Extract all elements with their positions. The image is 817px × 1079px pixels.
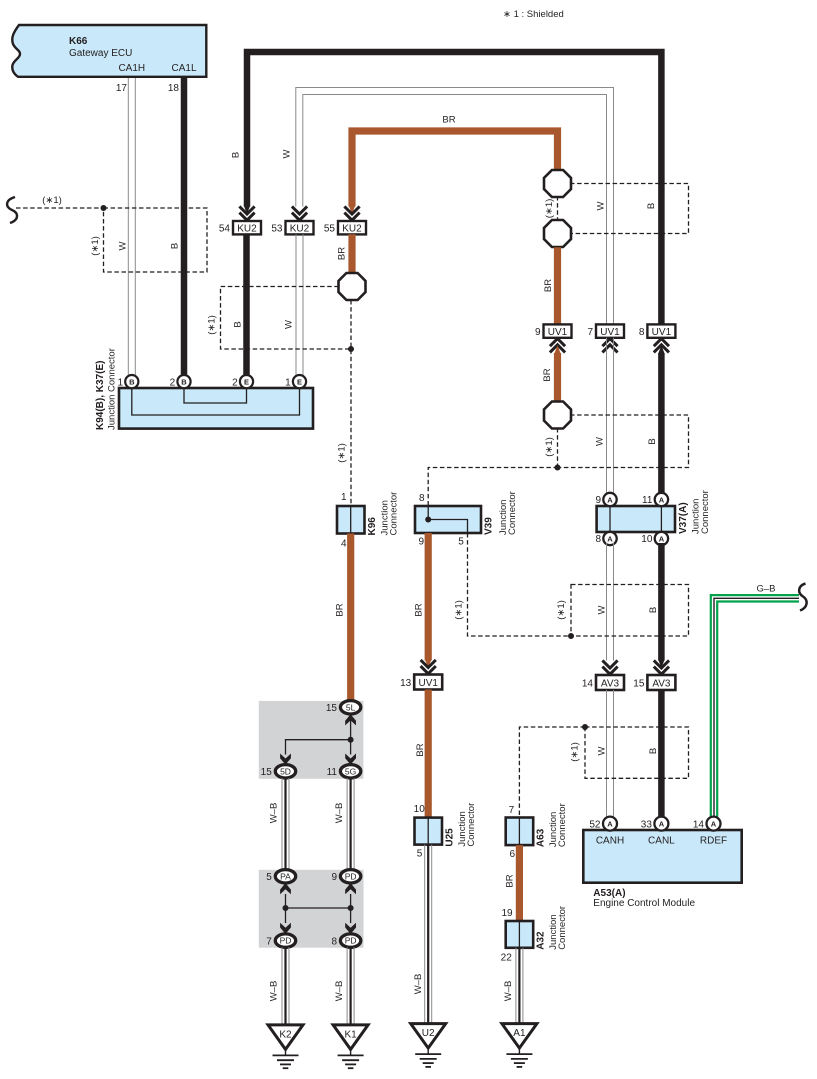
shield dashed box top right — [570, 184, 689, 234]
wire label W-B (U25-U2) — [413, 974, 424, 995]
svg-text:Gateway ECU: Gateway ECU — [69, 48, 132, 59]
wire brown K96 pin4 to 5L — [347, 534, 354, 703]
svg-text:(∗1): (∗1) — [337, 443, 348, 463]
svg-text:7: 7 — [509, 805, 515, 816]
svg-text:BR: BR — [505, 874, 516, 887]
svg-text:UV1: UV1 — [600, 327, 620, 338]
label B box4 — [648, 748, 659, 754]
wire white pair UV1 7 to V37 pin 9A — [607, 338, 614, 495]
shield dashed box mid right — [558, 415, 689, 468]
connector 53 KU2 — [271, 221, 313, 235]
svg-text:W: W — [118, 241, 129, 250]
wire label BR (top bus) — [442, 115, 455, 126]
svg-text:BR: BR — [442, 115, 455, 126]
svg-text:6: 6 — [509, 849, 515, 860]
svg-text:K1: K1 — [344, 1030, 357, 1041]
wire W-B PD8 to ground K1 — [347, 947, 354, 1025]
svg-text:(∗1): (∗1) — [544, 199, 555, 219]
arrow into AV3 15 — [654, 660, 669, 674]
shield octagon (left) — [339, 273, 366, 300]
shield drain dashed V39 pin5 down — [468, 533, 572, 636]
svg-text:9: 9 — [418, 537, 424, 548]
connector 14 AV3 — [582, 675, 624, 690]
svg-text:U2: U2 — [422, 1028, 435, 1039]
link line between dots — [286, 907, 351, 909]
svg-text:Connector: Connector — [557, 803, 568, 847]
svg-text:BR: BR — [415, 743, 426, 756]
arrow into AV3 14 — [602, 660, 617, 674]
connector 13 UV1 — [400, 675, 442, 690]
svg-text:W: W — [595, 437, 606, 446]
junction connector K96 — [337, 492, 365, 550]
pin 1(E) of K94 — [285, 375, 306, 388]
svg-text:15: 15 — [261, 767, 273, 778]
label (*1) shield box 1 — [90, 236, 101, 256]
wire black AV3 15 to ECM 33A — [658, 690, 665, 820]
svg-text:E: E — [297, 378, 302, 387]
svg-text:5G: 5G — [345, 766, 356, 776]
svg-text:A: A — [659, 535, 665, 544]
svg-text:A63: A63 — [536, 828, 547, 847]
svg-text:V37(A): V37(A) — [678, 502, 689, 534]
arrow into KU2 54 — [239, 206, 254, 220]
connector 15 AV3 — [633, 675, 675, 690]
shield junction dot — [101, 205, 107, 211]
svg-text:KU2: KU2 — [342, 224, 362, 235]
svg-text:BR: BR — [414, 603, 425, 616]
svg-text:8: 8 — [595, 534, 601, 545]
svg-text:W–B: W–B — [269, 803, 280, 824]
svg-text:V39: V39 — [484, 517, 495, 535]
svg-text:K66: K66 — [69, 36, 88, 47]
pin oval 5 PA — [266, 870, 295, 883]
wire label BR (K96-5L) — [335, 603, 346, 616]
svg-text:B: B — [181, 378, 187, 387]
svg-text:11: 11 — [327, 767, 338, 778]
solid arrow down into 5D — [280, 754, 291, 765]
svg-text:14: 14 — [582, 679, 594, 690]
svg-text:K2: K2 — [279, 1030, 292, 1041]
wire W-B 5D to PA — [282, 778, 289, 870]
link line PA to dot — [285, 894, 287, 923]
wire tip into KU2 54 — [244, 206, 251, 215]
label V39 — [484, 491, 519, 535]
wire W-B 5G to PD9 — [347, 778, 354, 870]
label (*1) box4 — [570, 742, 581, 762]
link line PD9 to dot — [350, 894, 352, 923]
break squiggle G-B — [799, 584, 807, 611]
svg-text:8: 8 — [639, 327, 645, 338]
label W shield box 2 — [284, 320, 295, 329]
junction dot on shield drain — [348, 346, 354, 352]
label (*1) at squiggle — [42, 195, 62, 206]
arrow into KU2 55 — [344, 206, 359, 220]
svg-text:W–B: W–B — [413, 974, 424, 995]
wire W-B A32 to ground A1 — [516, 948, 523, 1024]
svg-text:5: 5 — [266, 872, 272, 883]
shield dashed box V37-AV3 — [571, 585, 689, 637]
ground U2 — [411, 1024, 446, 1067]
shield drain dashed wire octagon to K96 — [350, 300, 352, 506]
wire label W-B (5D-PA) — [269, 803, 280, 824]
junction dot box4 — [582, 724, 588, 730]
wire label B (54 branch) — [231, 152, 242, 158]
svg-text:AV3: AV3 — [652, 679, 671, 690]
svg-text:PD: PD — [280, 936, 292, 946]
wire CAN-B main bus thick black — [247, 52, 661, 325]
wire label W-B (A32-A1) — [503, 981, 514, 1002]
svg-text:1: 1 — [117, 377, 123, 388]
label U25 — [445, 803, 478, 847]
shield dashed box 2 (B/W to junction) — [221, 287, 352, 350]
wire black KU2 54 to K94 pin 2E — [243, 234, 250, 378]
svg-text:54: 54 — [219, 224, 231, 235]
pin 17 label — [116, 83, 128, 94]
wire brown UV1 13 to U25 — [425, 690, 432, 818]
connector 8 UV1 — [639, 324, 676, 338]
svg-text:(∗1): (∗1) — [570, 742, 581, 762]
pin oval 15 5D — [261, 765, 296, 778]
svg-text:B: B — [129, 378, 135, 387]
solid arrow up into PA — [280, 883, 291, 894]
wire white pair KU2 53 to K94 pin 1E — [296, 234, 303, 378]
svg-text:(∗1): (∗1) — [544, 437, 555, 457]
svg-text:5L: 5L — [346, 702, 356, 712]
pin 14(A) of A53 — [693, 817, 721, 831]
connector 54 KU2 — [219, 221, 261, 235]
svg-text:B: B — [648, 607, 659, 613]
wire W-B PD7 to ground K2 — [282, 947, 289, 1025]
pin oval 7 PD — [266, 934, 295, 947]
svg-text:PD: PD — [345, 871, 357, 881]
ground A1 — [502, 1024, 537, 1067]
shield octagon 1 — [544, 170, 571, 197]
svg-text:(∗1): (∗1) — [207, 315, 218, 335]
link line dot to 5G — [350, 740, 352, 755]
junction connector A32 — [501, 908, 534, 963]
svg-text:A: A — [659, 496, 665, 505]
svg-text:14: 14 — [693, 819, 705, 830]
pin 11(A) of V37 — [642, 493, 668, 506]
svg-text:UV1: UV1 — [548, 327, 568, 338]
svg-text:9: 9 — [331, 872, 337, 883]
svg-text:BR: BR — [542, 368, 553, 381]
svg-text:18: 18 — [168, 83, 180, 94]
svg-text:AV3: AV3 — [601, 679, 620, 690]
wire brown A63 to A32 — [516, 845, 523, 921]
svg-text:UV1: UV1 — [418, 678, 438, 689]
ECU A53(A) Engine Control Module — [583, 830, 741, 909]
ground K2 — [268, 1025, 303, 1068]
pin 8(A) of V37 — [595, 532, 616, 545]
junction connector A63 — [506, 805, 534, 860]
svg-text:BR: BR — [543, 279, 554, 292]
junction dot gray box 1 — [348, 737, 354, 743]
svg-text:W–B: W–B — [334, 803, 345, 824]
svg-text:PD: PD — [345, 936, 357, 946]
wire label BR (oct2-UV1) — [543, 279, 554, 292]
pin 10(A) of V37 — [641, 532, 668, 545]
arrow into UV1 13 — [421, 660, 436, 674]
solid arrow down into PD8 — [345, 923, 356, 934]
shield link octagon1-octagon2 — [557, 196, 559, 221]
svg-text:5D: 5D — [280, 766, 291, 776]
svg-text:(∗1): (∗1) — [556, 600, 567, 620]
label K94(B),K37(E) — [95, 348, 118, 430]
wire tip into KU2 55 — [349, 206, 356, 215]
label B shield box 2 — [233, 321, 244, 327]
svg-text:W: W — [597, 746, 608, 755]
svg-text:A: A — [607, 535, 613, 544]
svg-text:U25: U25 — [445, 828, 456, 847]
pin 1(B) of K94 — [117, 375, 138, 388]
label B box3 — [648, 607, 659, 613]
pin 33(A) of A53 — [641, 817, 669, 831]
shield dashed lead from squiggle — [16, 207, 104, 209]
wire white pair AV3 14 to ECM 52A — [607, 690, 614, 820]
svg-text:G–B: G–B — [756, 584, 775, 595]
svg-text:1: 1 — [285, 377, 291, 388]
svg-text:4: 4 — [341, 539, 347, 550]
svg-text:1: 1 — [341, 492, 347, 503]
svg-text:A1: A1 — [513, 1028, 526, 1039]
label A32 — [536, 906, 568, 950]
solid arrow up into 5L — [345, 714, 356, 725]
svg-text:A: A — [607, 496, 613, 505]
svg-text:Connector: Connector — [507, 491, 518, 535]
svg-text:KU2: KU2 — [237, 224, 257, 235]
wire brown KU2 55 to shield octagon — [348, 234, 355, 275]
arrow below UV1 9 — [550, 339, 565, 353]
pin 9(A) of V37 — [595, 493, 616, 506]
svg-text:∗ 1 : Shielded: ∗ 1 : Shielded — [503, 9, 564, 20]
wire CA1L black K66 pin18 to K94 pin 2B — [181, 78, 188, 378]
shield drain dashed box4 to A63 pin 7 — [519, 727, 585, 818]
svg-text:9: 9 — [535, 327, 541, 338]
connector 55 KU2 — [324, 221, 366, 235]
svg-text:22: 22 — [501, 952, 513, 963]
svg-text:11: 11 — [642, 495, 653, 506]
svg-text:W: W — [284, 320, 295, 329]
svg-text:B: B — [170, 243, 181, 249]
connector 9 UV1 — [535, 324, 572, 338]
svg-text:15: 15 — [633, 679, 645, 690]
label (*1) between octagons — [544, 199, 555, 219]
svg-text:15: 15 — [326, 703, 338, 714]
wire W main pair — [296, 88, 614, 326]
junction connector U25 — [414, 804, 442, 859]
svg-text:B: B — [648, 748, 659, 754]
wire label W-B (PD8-K1) — [334, 981, 345, 1002]
label W box3 — [597, 605, 608, 614]
svg-text:7: 7 — [266, 936, 272, 947]
pin 2(E) of K94 — [232, 375, 253, 388]
junction dot box3 — [568, 633, 574, 639]
svg-text:RDEF: RDEF — [700, 836, 727, 847]
svg-text:2: 2 — [232, 377, 238, 388]
svg-text:(∗1): (∗1) — [42, 195, 62, 206]
label (*1) drain to K96 — [337, 443, 348, 463]
svg-text:17: 17 — [116, 83, 128, 94]
svg-text:BR: BR — [335, 603, 346, 616]
svg-text:19: 19 — [501, 908, 513, 919]
svg-text:8: 8 — [419, 493, 425, 504]
svg-text:CANL: CANL — [648, 836, 675, 847]
link line left to 5D — [286, 740, 351, 755]
svg-text:CA1H: CA1H — [118, 63, 145, 74]
junction dot PD column — [348, 905, 354, 911]
label A63 — [536, 803, 568, 847]
svg-text:W–B: W–B — [334, 981, 345, 1002]
svg-text:BR: BR — [337, 247, 348, 260]
pin 18 label — [168, 83, 180, 94]
svg-text:7: 7 — [587, 327, 593, 338]
shield dashed box AV3-ECM — [585, 727, 689, 778]
wire brown octagon2 to UV1 9 — [554, 247, 561, 325]
wire brown UV1 9 to octagon 3 — [554, 345, 561, 402]
junction dot PA column — [283, 905, 289, 911]
wire black UV1 8 to V37 pin 11A — [658, 345, 665, 495]
pin oval 11 5G — [327, 765, 361, 778]
label (*1) box3 — [556, 600, 567, 620]
svg-text:CANH: CANH — [596, 836, 624, 847]
gray connector block lower — [259, 870, 364, 948]
ground K1 — [333, 1025, 368, 1068]
svg-text:B: B — [647, 438, 658, 444]
label W top right box — [596, 201, 607, 210]
wire label W (53 branch) — [282, 149, 293, 158]
svg-text:CA1L: CA1L — [171, 63, 196, 74]
wire label W (CA1H) — [118, 241, 129, 250]
solid arrow down into PD7 — [280, 923, 291, 934]
svg-text:33: 33 — [641, 819, 653, 830]
svg-text:Engine Control Module: Engine Control Module — [593, 898, 695, 909]
label (*1) shield box 2 — [207, 315, 218, 335]
wire W-B U25 to ground U2 — [425, 845, 432, 1024]
svg-text:A: A — [607, 820, 613, 829]
label K96 — [367, 492, 400, 536]
svg-text:5: 5 — [417, 848, 423, 859]
link line 5L to dot — [350, 720, 352, 740]
solid arrow down into 5G — [345, 754, 356, 765]
svg-text:13: 13 — [400, 678, 412, 689]
svg-text:K94(B), K37(E): K94(B), K37(E) — [95, 361, 106, 430]
label (*1) on V39 drain — [454, 600, 465, 620]
svg-text:Connector: Connector — [389, 492, 400, 536]
label B mid right box — [647, 438, 658, 444]
pin oval 9 PD — [331, 870, 360, 883]
label V37(A) — [678, 490, 711, 534]
wire CA1H white pair K66 pin17 to K94 pin 1B — [128, 78, 135, 378]
label W mid right box — [595, 437, 606, 446]
shield drain octagon3 to junction — [557, 428, 559, 468]
arrow below UV1 7 — [602, 339, 617, 353]
wire label BR (A63-A32) — [505, 874, 516, 887]
junction connector K94(B),K37(E) box — [119, 388, 313, 429]
junction connector V39 — [415, 493, 481, 548]
svg-text:B: B — [231, 152, 242, 158]
arrow below UV1 8 — [654, 339, 669, 353]
svg-text:UV1: UV1 — [652, 327, 672, 338]
wire black V37 10A to AV3 15 — [658, 543, 665, 668]
svg-text:5: 5 — [458, 537, 464, 548]
pin oval 8 PD — [331, 934, 360, 947]
wire label BR (V39-UV1 13) — [414, 603, 425, 616]
junction dot below octagon 3 — [555, 465, 561, 471]
wire label BR (UV1 13-U25) — [415, 743, 426, 756]
arrow into KU2 53 — [292, 206, 307, 220]
svg-text:A: A — [659, 820, 665, 829]
wire label W-B (5G-PD) — [334, 803, 345, 824]
svg-text:B: B — [646, 203, 657, 209]
svg-text:2: 2 — [170, 377, 176, 388]
svg-text:W–B: W–B — [503, 981, 514, 1002]
svg-text:W: W — [596, 201, 607, 210]
wire label B (CA1L) — [170, 243, 181, 249]
svg-text:10: 10 — [641, 534, 653, 545]
svg-text:A: A — [711, 820, 717, 829]
label W box4 — [597, 746, 608, 755]
pin 52(A) of A53 — [589, 817, 617, 831]
svg-text:PA: PA — [280, 871, 291, 881]
connector 7 UV1 — [587, 324, 624, 338]
svg-text:(∗1): (∗1) — [90, 236, 101, 256]
ECU K66 Gateway ECU — [12, 25, 206, 77]
svg-text:A32: A32 — [536, 931, 547, 950]
svg-text:53: 53 — [271, 224, 283, 235]
pin oval 15 5L — [326, 701, 361, 714]
wire label W-B (PD7-K2) — [269, 981, 280, 1002]
pin 2(B) of K94 — [170, 375, 191, 388]
svg-text:KU2: KU2 — [290, 224, 310, 235]
svg-text:55: 55 — [324, 224, 336, 235]
svg-text:(∗1): (∗1) — [454, 600, 465, 620]
svg-text:W: W — [597, 605, 608, 614]
svg-text:Connector: Connector — [466, 803, 477, 847]
wire white pair V37 8A to AV3 14 — [607, 543, 614, 661]
wire brown V39 pin9 to UV1 13 — [425, 533, 432, 668]
svg-text:52: 52 — [589, 819, 601, 830]
wire BR brown bus top — [352, 131, 558, 207]
svg-text:10: 10 — [414, 804, 426, 815]
label (*1) below octagon 3 — [544, 437, 555, 457]
svg-text:B: B — [233, 321, 244, 327]
label B top right box — [646, 203, 657, 209]
shield dashed box CA1H/CA1L — [104, 208, 208, 272]
wire label BR (UV1 to oct3) — [542, 368, 553, 381]
shield octagon 2 — [544, 220, 571, 247]
svg-text:9: 9 — [595, 495, 601, 506]
svg-text:K96: K96 — [367, 517, 378, 536]
shield drain dashed to V39 pin 8 — [428, 468, 558, 507]
svg-text:8: 8 — [331, 936, 337, 947]
svg-text:Junction Connector: Junction Connector — [107, 348, 118, 430]
svg-text:Connector: Connector — [557, 906, 568, 950]
break squiggle left — [7, 197, 17, 223]
svg-text:E: E — [244, 378, 249, 387]
svg-text:W: W — [282, 149, 293, 158]
wire G-B green/black to ECM RDEF — [711, 595, 799, 817]
wire label BR (below 55) — [337, 247, 348, 260]
junction connector V37(A) — [597, 506, 675, 532]
note: shielded legend — [503, 9, 564, 20]
svg-text:Connector: Connector — [700, 490, 711, 534]
svg-text:W–B: W–B — [269, 981, 280, 1002]
shield octagon 3 — [544, 402, 571, 429]
label G-B — [756, 584, 775, 595]
solid arrow up into PD9 — [345, 883, 356, 894]
gray connector block upper — [259, 701, 364, 779]
